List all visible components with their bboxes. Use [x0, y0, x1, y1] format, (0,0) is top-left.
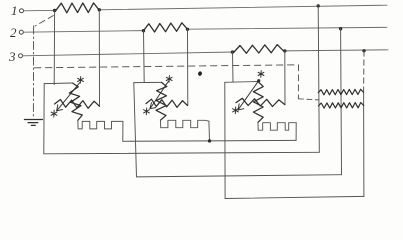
- linkage dashed horizontal: [34, 65, 298, 68]
- resistor R1: [56, 3, 99, 13]
- wire line2 left: [23, 31, 143, 33]
- resistor bank row RB1: [318, 89, 363, 95]
- wire drop R3 right to HZ3: [284, 51, 286, 105]
- resistor RH1: [55, 100, 100, 109]
- wire comb3 drop: [295, 123, 297, 141]
- wire bank vertical V1: [318, 6, 319, 152]
- rheostat element RV3: [253, 82, 263, 123]
- linkage chain vertical: [32, 26, 34, 119]
- asterisk A2a: [166, 76, 172, 83]
- ground symbol: [24, 120, 42, 126]
- junction line1 bank: [317, 4, 320, 7]
- junction line3-R3 left: [231, 50, 234, 53]
- terminal T2: [19, 30, 23, 34]
- linkage dashed diagonal: [35, 16, 54, 27]
- wire bracket1: [44, 82, 72, 85]
- junction line3 bank: [362, 49, 365, 52]
- junction line1-R1 right: [98, 8, 101, 11]
- svg-text:3: 3: [8, 49, 16, 64]
- wire bracket3: [225, 81, 258, 84]
- asterisk A2b: [144, 108, 150, 115]
- svg-text:2: 2: [10, 25, 17, 40]
- wire drop R3 left through bracket3: [232, 52, 235, 82]
- resistor R2: [144, 23, 188, 32]
- wire comb common: [123, 139, 296, 142]
- junction line1-R1 left: [53, 9, 56, 12]
- junction line2 bank: [339, 27, 342, 30]
- terminal T3: [19, 54, 23, 58]
- resistor R3: [234, 45, 284, 54]
- wire bank vertical V3 lower: [363, 92, 365, 196]
- terminal T1: [20, 9, 24, 13]
- asterisk A3b: [233, 107, 239, 114]
- resistor bank row RB2: [318, 103, 363, 109]
- wire return3 bottom: [225, 196, 364, 198]
- electrode comb E3: [258, 122, 296, 130]
- asterisk A1a: [78, 77, 84, 84]
- wire return1 left drop: [43, 84, 45, 154]
- junction comb2 common: [208, 139, 211, 142]
- wire drop R2 left to bracket2: [143, 31, 146, 83]
- ink blot: [198, 71, 203, 76]
- wire bank vertical V3 dashed: [363, 51, 365, 92]
- electrode comb E1: [78, 120, 123, 128]
- wire line1 left: [24, 9, 57, 12]
- wire return2 bottom: [137, 175, 342, 177]
- svg-text:1: 1: [11, 3, 18, 18]
- electrode comb E2: [161, 120, 209, 128]
- junction line3-R3 right: [283, 49, 286, 52]
- wire line3 right: [284, 50, 389, 51]
- linkage dashed horizontal lower: [298, 99, 318, 100]
- wire drop R1 right to HZ1: [98, 10, 100, 107]
- wiper arrow W1: [57, 83, 80, 111]
- wiper arrow W2: [150, 81, 169, 109]
- asterisk A1b: [51, 110, 57, 117]
- junction arrow3 tail: [257, 79, 260, 82]
- wire line2 right: [188, 27, 388, 29]
- wire return3 left drop: [224, 82, 226, 198]
- wire return2 left drop: [134, 83, 137, 177]
- asterisk A3a: [258, 71, 264, 78]
- wire bank vertical V2: [340, 29, 343, 175]
- wire drop R2 right to HZ2: [187, 29, 189, 105]
- wire return1 bottom: [44, 152, 320, 154]
- wire drop R1 left to bracket1: [53, 11, 55, 85]
- wiper arrow W3: [238, 81, 259, 110]
- rheostat element RV2: [156, 82, 167, 120]
- resistor RH3: [236, 98, 285, 106]
- junction line2-R2 right: [186, 28, 189, 31]
- wire comb2 drop: [208, 121, 211, 141]
- resistor RH2: [146, 99, 188, 107]
- wire line1 right: [99, 5, 387, 10]
- wire comb1 drop: [122, 121, 124, 141]
- junction line2-R2 left: [142, 29, 145, 32]
- linkage dashed vertical right: [297, 65, 299, 99]
- wire bracket2: [134, 81, 162, 83]
- wire line3 left: [23, 52, 235, 56]
- rheostat element RV1: [69, 83, 82, 120]
